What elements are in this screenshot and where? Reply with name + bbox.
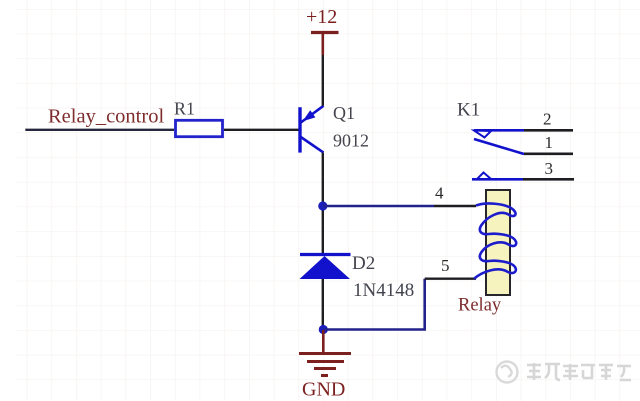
wire — [322, 153, 324, 254]
svg-text:4: 4 — [435, 184, 444, 203]
svg-text:2: 2 — [543, 110, 552, 129]
relay K1 contacts — [472, 130, 524, 179]
svg-text:1: 1 — [545, 133, 554, 152]
svg-text:GND: GND — [302, 379, 345, 401]
ground — [299, 330, 351, 376]
svg-text:Relay_control: Relay_control — [48, 106, 164, 128]
pin 4 wire — [434, 205, 476, 207]
pin 2 wire — [524, 129, 573, 132]
junction node collector — [318, 201, 327, 210]
pin 5 wire — [425, 278, 476, 280]
svg-text:+12: +12 — [306, 6, 337, 28]
resistor R1 — [176, 120, 223, 136]
junction node cathode-gnd — [319, 325, 328, 334]
wire — [323, 279, 424, 330]
wire — [224, 129, 299, 131]
wire — [322, 279, 324, 330]
diode D2 — [300, 255, 351, 280]
svg-text:5: 5 — [441, 256, 450, 275]
svg-text:9012: 9012 — [333, 131, 369, 151]
svg-text:R1: R1 — [174, 99, 195, 119]
watermark logo — [497, 362, 518, 383]
transistor Q1 — [300, 106, 324, 153]
wire — [322, 55, 324, 106]
watermark text — [527, 363, 631, 380]
wire — [25, 129, 174, 131]
svg-text:Q1: Q1 — [333, 103, 355, 123]
svg-text:1N4148: 1N4148 — [353, 280, 414, 301]
svg-text:D2: D2 — [352, 253, 375, 274]
svg-text:K1: K1 — [457, 100, 480, 121]
relay K1 coil — [474, 190, 516, 295]
pin 3 wire — [523, 178, 574, 181]
power +12 — [311, 32, 339, 55]
wire — [323, 205, 434, 208]
svg-text:Relay: Relay — [458, 296, 502, 316]
svg-text:3: 3 — [545, 159, 554, 178]
pin 1 wire — [524, 153, 573, 156]
